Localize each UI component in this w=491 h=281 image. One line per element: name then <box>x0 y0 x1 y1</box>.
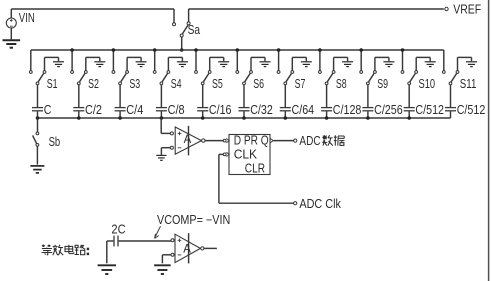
svg-text:C/2: C/2 <box>85 103 102 117</box>
svg-text:Sa: Sa <box>188 23 201 37</box>
svg-text:C/32: C/32 <box>250 103 273 117</box>
svg-text:S6: S6 <box>253 77 264 91</box>
svg-text:VIN: VIN <box>19 11 35 25</box>
svg-text:CLR: CLR <box>245 162 265 176</box>
svg-text:Sb: Sb <box>49 135 61 149</box>
svg-text:C: C <box>44 103 52 117</box>
svg-text:D PR Q: D PR Q <box>234 134 269 148</box>
svg-text:VCOMP= −VIN: VCOMP= −VIN <box>157 213 230 227</box>
svg-text:C/64: C/64 <box>292 103 315 117</box>
svg-text:S7: S7 <box>295 77 306 91</box>
svg-text:CLK: CLK <box>234 148 258 162</box>
svg-text:ADC Clk: ADC Clk <box>299 197 341 211</box>
svg-text:S9: S9 <box>377 77 388 91</box>
svg-text:C/8: C/8 <box>168 103 185 117</box>
svg-text:C/4: C/4 <box>126 103 143 117</box>
svg-text:S2: S2 <box>88 77 99 91</box>
svg-text:S5: S5 <box>212 77 223 91</box>
svg-text:C/16: C/16 <box>209 103 232 117</box>
svg-text:A: A <box>183 244 191 256</box>
svg-text:S10: S10 <box>419 77 436 91</box>
svg-text:S1: S1 <box>47 77 58 91</box>
svg-text:A: A <box>184 134 192 146</box>
svg-text:C/512: C/512 <box>457 103 486 117</box>
svg-text:S3: S3 <box>129 77 140 91</box>
svg-text:S11: S11 <box>460 77 477 91</box>
svg-text:ADC: ADC <box>299 134 320 148</box>
svg-text:C/512: C/512 <box>415 103 444 117</box>
svg-text:S4: S4 <box>171 77 182 91</box>
svg-text:VREF: VREF <box>453 2 481 17</box>
svg-text:C/128: C/128 <box>333 103 362 117</box>
svg-text:C/256: C/256 <box>374 103 403 117</box>
svg-text:S8: S8 <box>336 77 347 91</box>
svg-text:2C: 2C <box>111 222 125 237</box>
